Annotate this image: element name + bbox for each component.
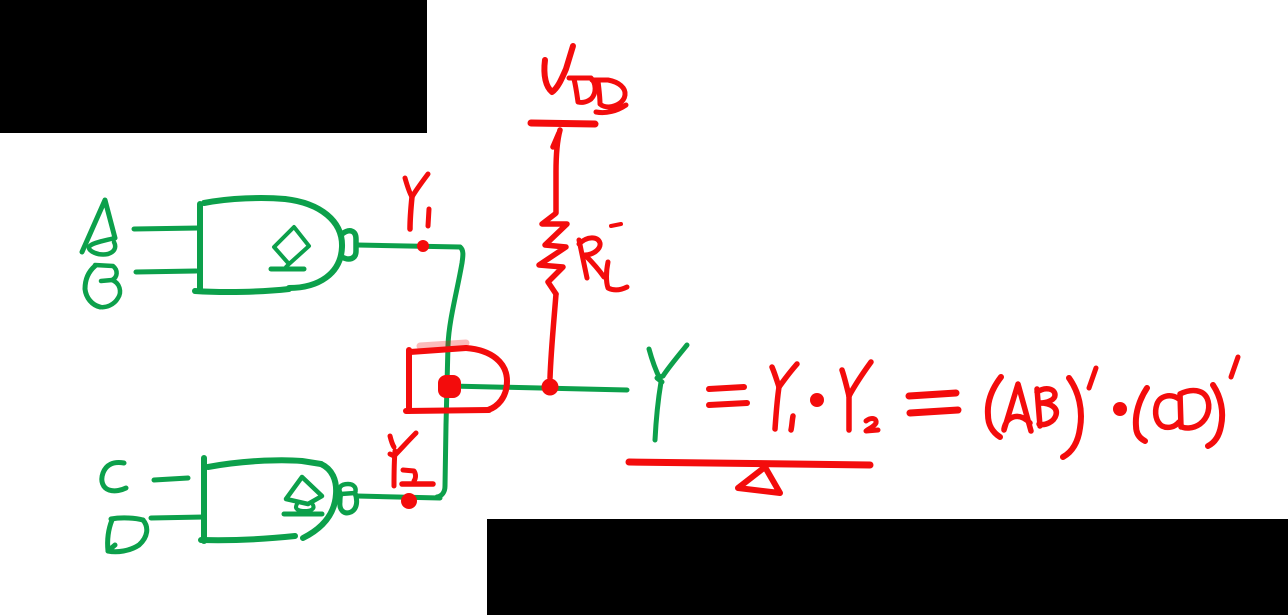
underline of result [629,462,870,465]
output bubble U2 [339,484,356,513]
stray dash above RL [611,224,621,226]
letter A in (AB) [1004,384,1031,431]
prime on (CD) [1231,357,1238,377]
open-collector diamond symbol in U1 [274,227,309,267]
wire Y1 output [357,245,460,247]
underline of diamond U2 [284,512,322,517]
node dot Y1 [417,240,429,252]
resistor RL zigzag [539,214,567,294]
triangle marker under result [738,467,780,493]
junction dot at resistor/output node [542,379,559,396]
wire Y2 output [357,496,440,498]
open-collector diamond symbol in U2 [286,477,322,511]
wire resistor to junction [550,294,556,378]
letter D in (CD) [1180,391,1209,429]
paren close (CD) [1208,385,1222,446]
label Y1 (node) [405,174,429,229]
wire input B [136,271,196,272]
equation term Y2 [842,362,878,431]
wire input C [154,478,188,480]
prime on (AB) [1089,368,1096,388]
label Y2 (node) [390,433,433,486]
wire VDD to resistor [553,130,560,213]
input label D [108,518,147,552]
NAND gate U2 body [201,458,336,541]
paren close (AB) [1063,378,1081,457]
NAND gate U1 body [195,198,342,292]
wired-AND junction blob [438,375,461,398]
label RL [579,238,627,290]
node dot Y2 [401,493,417,509]
multiply dot 2 [1113,402,1127,416]
equals sign 2 [909,393,958,413]
input label B [85,265,120,307]
letter B in (AB) [1037,389,1056,426]
power label VDD [544,46,626,113]
wire Y1 corner down to wired-AND node [437,247,463,497]
paren open (AB) [988,377,1001,437]
label Y (green, equation) [649,345,687,440]
redaction black box bottom-right [487,519,1288,615]
multiply dot 1 [810,393,824,407]
underline of diamond U1 [271,267,304,272]
output bubble U1 [342,231,356,259]
input label A [82,200,115,254]
wire input D [151,517,204,518]
letter C in (CD) [1156,396,1179,428]
wire input A [134,228,199,229]
paren open (CD) [1136,388,1147,441]
redaction black box top-left [0,0,427,133]
equation term Y1 [772,364,797,430]
wired-AND D-shape symbol [406,343,507,411]
power rail VDD bar [531,123,595,124]
wire wired-AND node to resistor junction [450,386,627,390]
input label C [102,462,126,490]
equals sign 1 [709,387,747,405]
